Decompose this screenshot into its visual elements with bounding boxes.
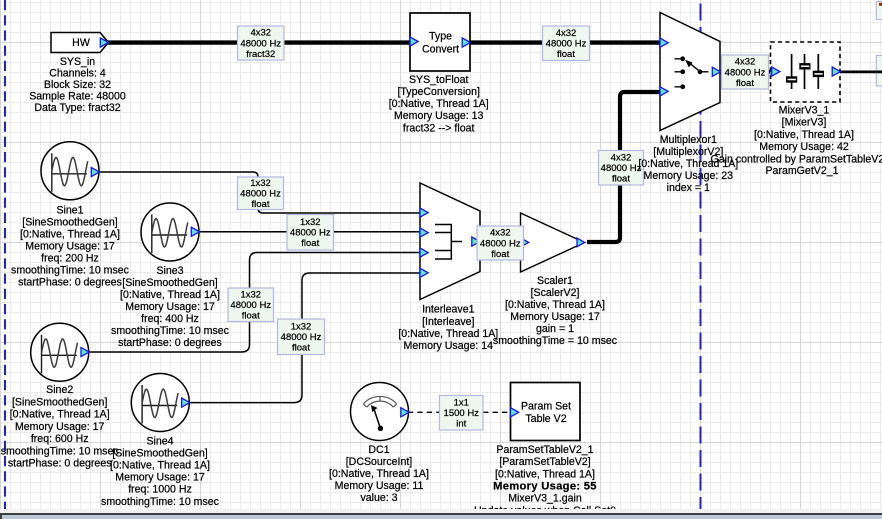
svg-text:Sine3: Sine3 <box>156 265 183 277</box>
port ParamSetTableV2_1 input <box>511 408 519 417</box>
wire label sliver mid-right <box>876 56 882 87</box>
svg-text:48000 Hz: 48000 Hz <box>480 238 521 249</box>
svg-text:smoothingTime: 10 msec: smoothingTime: 10 msec <box>1 445 120 457</box>
svg-text:startPhase: 0 degrees: startPhase: 0 degrees <box>8 458 112 470</box>
svg-text:[MixerV3]: [MixerV3] <box>782 117 827 129</box>
svg-text:startPhase: 0 degrees: startPhase: 0 degrees <box>18 277 122 289</box>
wire label Sine1 output 1x32 48000 Hz float <box>238 177 284 210</box>
svg-text:48000 Hz: 48000 Hz <box>546 39 587 50</box>
port Multiplexor1 output <box>712 67 720 76</box>
svg-text:Data Type: fract32: Data Type: fract32 <box>34 102 120 114</box>
text SYS_toFloat properties <box>389 74 489 134</box>
sine generator Sine1 <box>41 142 99 200</box>
svg-text:float: float <box>242 311 260 322</box>
wire Sine3 to Interleave1 input 2 <box>198 231 421 233</box>
svg-text:Memory Usage: 17: Memory Usage: 17 <box>125 301 215 313</box>
svg-text:[0:Native, Thread 1A]: [0:Native, Thread 1A] <box>10 409 110 421</box>
svg-text:freq: 1000 Hz: freq: 1000 Hz <box>128 484 192 496</box>
svg-text:[SineSmoothedGen]: [SineSmoothedGen] <box>22 216 117 228</box>
svg-text:1x1: 1x1 <box>454 397 469 408</box>
svg-text:Memory Usage: 11: Memory Usage: 11 <box>335 480 424 492</box>
svg-text:48000 Hz: 48000 Hz <box>725 67 766 78</box>
svg-text:Interleave1: Interleave1 <box>422 304 475 316</box>
port Interleave1 output <box>472 237 480 246</box>
svg-text:smoothingTime: 10 msec: smoothingTime: 10 msec <box>101 496 220 508</box>
port Scaler1 input <box>521 238 529 247</box>
port DC1 output <box>401 408 409 417</box>
interleave icon <box>435 224 462 260</box>
svg-text:Memory Usage: 17: Memory Usage: 17 <box>510 311 600 323</box>
svg-text:Type: Type <box>429 30 452 42</box>
page boundary dashed line centre-right <box>700 0 702 509</box>
sine generator Sine3 <box>141 203 199 261</box>
port Sine2 output <box>81 347 89 356</box>
wire MixerV3_1 output to right edge <box>839 71 882 74</box>
text Sine1 properties <box>11 204 130 288</box>
switch icon inside Multiplexor1 <box>675 59 709 87</box>
wire label Interleave1 output 4x32 48000 Hz float <box>477 226 524 260</box>
svg-text:Sample Rate: 48000: Sample Rate: 48000 <box>29 90 126 102</box>
svg-text:[0:Native, Thread 1A]: [0:Native, Thread 1A] <box>398 328 498 340</box>
svg-text:[0:Native, Thread 1A]: [0:Native, Thread 1A] <box>110 460 210 472</box>
svg-text:freq: 200 Hz: freq: 200 Hz <box>41 253 99 265</box>
port SYS_toFloat output <box>462 38 470 47</box>
svg-text:Memory Usage: 17: Memory Usage: 17 <box>115 472 205 484</box>
text Scaler1 properties <box>493 275 618 347</box>
block DC1 (DC source, gauge icon) <box>351 383 409 441</box>
svg-text:48000 Hz: 48000 Hz <box>290 228 331 239</box>
svg-text:[DCSourceInt]: [DCSourceInt] <box>346 456 413 468</box>
svg-text:startPhase: 0 degrees: startPhase: 0 degrees <box>118 337 222 349</box>
wire label Sine4 output 1x32 48000 Hz float <box>278 319 325 355</box>
text Sine3 properties <box>111 265 230 349</box>
svg-text:[0:Native, Thread 1A]: [0:Native, Thread 1A] <box>389 98 489 110</box>
svg-text:4x32: 4x32 <box>490 228 511 239</box>
svg-text:SYS_toFloat: SYS_toFloat <box>409 74 469 86</box>
svg-text:Memory Usage: 17: Memory Usage: 17 <box>25 241 115 253</box>
port Sine4 output <box>182 398 190 407</box>
wire Scaler1 to Multiplexor1 lower input (4ch thick, up-and-over) <box>587 92 661 242</box>
block Interleave1 (trapezoid) <box>420 183 480 300</box>
port Multiplexor1 input 1 <box>660 38 668 47</box>
text ParamSetTableV2_1 properties <box>474 444 616 517</box>
svg-text:gain = 1: gain = 1 <box>536 323 574 335</box>
sine generator Sine4 <box>131 374 189 432</box>
svg-text:Convert: Convert <box>422 43 459 55</box>
svg-text:1500 Hz: 1500 Hz <box>444 408 480 419</box>
block MixerV3_1 (dashed, slider icons) <box>771 42 841 102</box>
svg-text:Sine4: Sine4 <box>146 435 173 447</box>
port MixerV3_1 input <box>772 67 780 76</box>
text Interleave1 properties <box>398 304 498 352</box>
text HW SYS_in properties <box>29 56 126 114</box>
port Sine1 output <box>91 167 99 176</box>
text Multiplexor1 properties <box>638 134 738 194</box>
svg-text:Scaler1: Scaler1 <box>537 275 573 287</box>
wire label Sine3 output 1x32 48000 Hz float <box>287 215 334 251</box>
port Interleave1 input 3 <box>420 248 428 257</box>
text Sine2 properties <box>1 384 120 470</box>
svg-text:Memory Usage: 23: Memory Usage: 23 <box>644 170 734 182</box>
port Interleave1 input 1 <box>420 208 428 217</box>
svg-text:[SineSmoothedGen]: [SineSmoothedGen] <box>12 396 107 408</box>
svg-text:Sine2: Sine2 <box>46 384 73 396</box>
page boundary dashed line left <box>4 0 6 509</box>
svg-text:[ParamSetTableV2]: [ParamSetTableV2] <box>499 456 590 468</box>
port Interleave1 input 2 <box>420 228 428 237</box>
svg-text:SYS_in: SYS_in <box>60 56 95 68</box>
wire Multiplexor1 to MixerV3_1 (4ch thick) <box>719 70 772 74</box>
svg-text:index = 1: index = 1 <box>667 182 710 194</box>
svg-text:1x32: 1x32 <box>240 289 261 300</box>
svg-text:[0:Native, Thread 1A]: [0:Native, Thread 1A] <box>505 299 605 311</box>
svg-text:Memory Usage: 42: Memory Usage: 42 <box>759 141 849 153</box>
svg-text:ParamSetTableV2_1: ParamSetTableV2_1 <box>496 444 593 456</box>
wire label DC1 output 1x1 1500 Hz int <box>440 396 484 431</box>
svg-text:float: float <box>557 49 575 60</box>
wire label TypeConvert output 4x32 48000 Hz float <box>543 26 590 61</box>
svg-text:Gain controlled by ParamSetTab: Gain controlled by ParamSetTableV2_1 <box>711 154 882 166</box>
port SYS_toFloat input <box>410 37 418 46</box>
wire Sine1 to Interleave1 input 1 <box>98 172 421 213</box>
port MixerV3_1 output <box>832 67 840 76</box>
svg-text:[0:Native, Thread 1A]: [0:Native, Thread 1A] <box>495 468 595 480</box>
block HW (SYS_in hardware input) <box>51 33 109 53</box>
svg-text:[SineSmoothedGen]: [SineSmoothedGen] <box>112 448 207 460</box>
port HW output <box>100 38 108 47</box>
svg-text:[0:Native, Thread 1A]: [0:Native, Thread 1A] <box>754 129 854 141</box>
text DC1 properties <box>329 444 429 504</box>
wire DC1 to ParamSetTableV2_1 (control, dashed) <box>408 411 511 413</box>
svg-text:DC1: DC1 <box>368 444 389 456</box>
svg-text:value: 3: value: 3 <box>360 492 397 504</box>
svg-text:4x32: 4x32 <box>611 153 632 164</box>
svg-text:Sine1: Sine1 <box>56 204 83 216</box>
svg-text:[ScalerV2]: [ScalerV2] <box>531 287 580 299</box>
svg-text:1x32: 1x32 <box>300 217 321 228</box>
svg-text:1x32: 1x32 <box>291 321 312 332</box>
svg-text:1x32: 1x32 <box>250 178 271 189</box>
svg-text:Param Set: Param Set <box>521 400 571 412</box>
wire Sine2 to Interleave1 input 3 <box>88 253 421 353</box>
svg-text:fract32 --> float: fract32 --> float <box>403 122 475 134</box>
svg-text:[SineSmoothedGen]: [SineSmoothedGen] <box>122 277 217 289</box>
wire label Sine2 output 1x32 48000 Hz float <box>228 288 274 322</box>
svg-text:float: float <box>491 249 509 260</box>
svg-text:4x32: 4x32 <box>250 28 271 39</box>
svg-text:fract32: fract32 <box>246 49 275 60</box>
svg-text:float: float <box>252 199 270 210</box>
wire label Multiplexor1 output 4x32 48000 Hz float <box>722 55 769 89</box>
svg-text:48000 Hz: 48000 Hz <box>281 332 322 343</box>
svg-text:smoothingTime = 10 msec: smoothingTime = 10 msec <box>493 335 618 347</box>
svg-text:freq: 600 Hz: freq: 600 Hz <box>31 433 89 445</box>
svg-text:4x32: 4x32 <box>735 57 756 68</box>
sine generator Sine2 <box>31 323 89 381</box>
svg-text:MixerV3_1.gain: MixerV3_1.gain <box>508 493 582 505</box>
text Sine4 properties <box>101 435 220 507</box>
svg-text:float: float <box>292 343 310 354</box>
wire label HW output 4x32 48000 Hz fract32 <box>238 26 285 60</box>
svg-text:Channels: 4: Channels: 4 <box>49 67 106 79</box>
svg-text:48000 Hz: 48000 Hz <box>601 163 642 174</box>
wire Sine4 to Interleave1 input 4 <box>189 273 421 403</box>
text MixerV3_1 properties <box>754 105 854 154</box>
block Multiplexor1 (trapezoid) <box>660 13 720 131</box>
block SYS_toFloat (Type Convert) <box>410 13 470 71</box>
port Multiplexor1 input 2 <box>660 87 668 96</box>
svg-text:48000 Hz: 48000 Hz <box>240 189 281 200</box>
svg-text:float: float <box>612 174 630 185</box>
wire label Scaler1 output 4x32 48000 Hz float <box>599 151 644 186</box>
svg-text:4x32: 4x32 <box>556 28 577 39</box>
svg-text:float: float <box>301 238 319 249</box>
svg-text:[Interleave]: [Interleave] <box>422 316 474 328</box>
svg-text:48000 Hz: 48000 Hz <box>240 38 281 49</box>
svg-text:[0:Native, Thread 1A]: [0:Native, Thread 1A] <box>329 468 429 480</box>
svg-text:Memory Usage: 17: Memory Usage: 17 <box>15 421 105 433</box>
svg-text:Table V2: Table V2 <box>525 413 566 425</box>
svg-text:HW: HW <box>72 37 90 49</box>
port Sine3 output <box>191 227 199 236</box>
svg-text:Memory Usage: 13: Memory Usage: 13 <box>394 110 484 122</box>
block ParamSetTableV2_1 (Param Set Table V2) <box>511 383 581 441</box>
svg-text:[TypeConversion]: [TypeConversion] <box>397 86 479 98</box>
svg-text:Block Size: 32: Block Size: 32 <box>44 79 111 91</box>
svg-text:48000 Hz: 48000 Hz <box>230 300 271 311</box>
svg-text:float: float <box>736 78 754 89</box>
svg-text:smoothingTime: 10 msec: smoothingTime: 10 msec <box>11 265 130 277</box>
svg-text:Memory Usage: 14: Memory Usage: 14 <box>404 340 494 352</box>
svg-text:ParamGetV2_1: ParamGetV2_1 <box>765 165 838 177</box>
svg-text:smoothingTime: 10 msec: smoothingTime: 10 msec <box>111 325 230 337</box>
svg-text:[0:Native, Thread 1A]: [0:Native, Thread 1A] <box>20 228 120 240</box>
wire TypeConvert to Multiplexor1 upper input (4ch thick) <box>470 40 661 44</box>
port Interleave1 input 4 <box>420 268 428 277</box>
wire HW SYS_in to TypeConvert (4ch thick) <box>108 40 410 44</box>
port Scaler1 output <box>577 238 585 247</box>
svg-text:int: int <box>456 419 466 430</box>
svg-text:freq: 400 Hz: freq: 400 Hz <box>141 313 199 325</box>
svg-text:[0:Native, Thread 1A]: [0:Native, Thread 1A] <box>120 289 220 301</box>
wire label sliver top-right <box>876 2 882 20</box>
svg-text:Memory Usage: 55: Memory Usage: 55 <box>493 481 597 493</box>
svg-text:Multiplexor1: Multiplexor1 <box>660 134 717 146</box>
svg-text:MixerV3_1: MixerV3_1 <box>779 105 830 117</box>
block Scaler1 (triangle) <box>521 213 585 272</box>
